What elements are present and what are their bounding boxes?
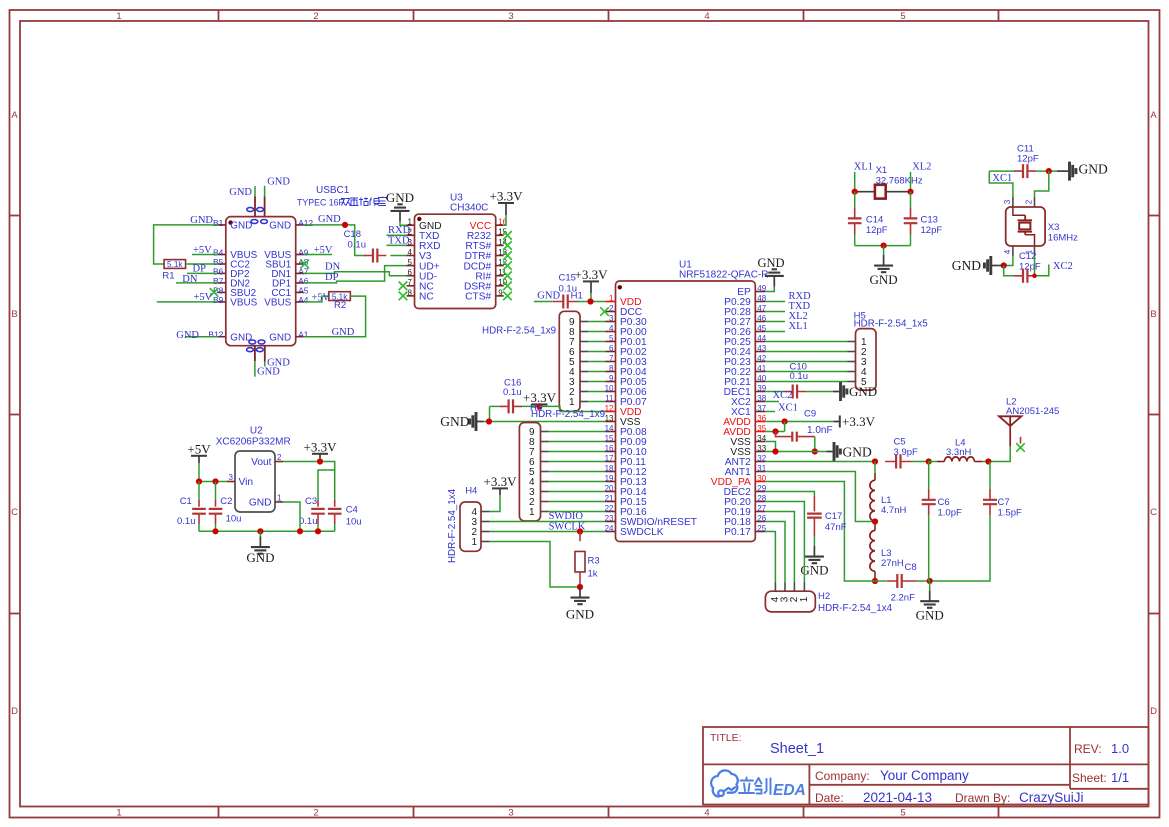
svg-text:4.7nH: 4.7nH: [881, 505, 906, 516]
svg-text:1.0nF: 1.0nF: [807, 425, 833, 436]
svg-text:+5V: +5V: [312, 293, 331, 304]
svg-text:C4: C4: [346, 505, 358, 516]
svg-text:20: 20: [605, 484, 614, 493]
svg-text:4: 4: [1003, 249, 1012, 254]
svg-text:A6: A6: [298, 276, 309, 286]
svg-text:3: 3: [508, 808, 513, 819]
svg-text:3: 3: [229, 473, 234, 482]
svg-text:4: 4: [704, 808, 709, 819]
svg-text:TYPEC 16P: TYPEC 16P: [297, 198, 345, 208]
svg-text:9: 9: [609, 374, 614, 383]
svg-text:A9: A9: [298, 247, 309, 257]
svg-text:A: A: [11, 110, 18, 121]
svg-text:1: 1: [116, 11, 121, 22]
svg-text:+3.3V: +3.3V: [304, 439, 338, 454]
svg-text:11: 11: [498, 268, 507, 277]
svg-text:8: 8: [609, 364, 614, 373]
svg-text:12pF: 12pF: [1017, 154, 1039, 165]
svg-text:A12: A12: [298, 218, 313, 228]
svg-text:5: 5: [900, 808, 905, 819]
svg-text:C2: C2: [220, 496, 232, 507]
svg-text:11: 11: [605, 394, 614, 403]
svg-text:18: 18: [605, 464, 614, 473]
svg-text:2: 2: [1025, 199, 1034, 204]
svg-text:15: 15: [498, 228, 507, 237]
svg-text:A: A: [1150, 110, 1157, 121]
svg-text:12pF: 12pF: [866, 225, 888, 236]
svg-text:0.1u: 0.1u: [177, 516, 196, 527]
svg-text:0.1u: 0.1u: [299, 516, 318, 527]
svg-text:A5: A5: [298, 285, 309, 295]
svg-text:C13: C13: [921, 215, 938, 226]
svg-text:GND: GND: [843, 445, 872, 460]
svg-text:H2: H2: [818, 591, 830, 602]
svg-text:2: 2: [277, 453, 282, 462]
svg-text:TXD: TXD: [388, 235, 410, 246]
svg-text:GND: GND: [440, 414, 469, 429]
svg-text:3.9pF: 3.9pF: [894, 447, 918, 458]
svg-text:16: 16: [605, 444, 614, 453]
svg-text:Drawn By:: Drawn By:: [955, 791, 1010, 805]
svg-text:X1: X1: [876, 165, 888, 176]
svg-text:DP: DP: [325, 272, 339, 283]
svg-text:B1: B1: [213, 218, 224, 228]
svg-text:1: 1: [116, 808, 121, 819]
svg-text:+5V: +5V: [193, 245, 212, 256]
svg-text:Your Company: Your Company: [880, 768, 969, 783]
svg-text:A4: A4: [298, 295, 309, 305]
svg-text:C1: C1: [180, 496, 192, 507]
svg-text:GND: GND: [249, 498, 272, 509]
svg-text:23: 23: [605, 514, 614, 523]
svg-text:1: 1: [277, 494, 282, 503]
svg-text:XL1: XL1: [854, 162, 873, 173]
svg-text:GND: GND: [537, 291, 560, 302]
svg-text:Vin: Vin: [239, 477, 254, 488]
svg-text:CH340C: CH340C: [450, 203, 488, 214]
svg-text:GND: GND: [269, 221, 291, 232]
svg-text:VBUS: VBUS: [264, 298, 291, 309]
svg-text:A7: A7: [298, 266, 309, 276]
svg-text:GND: GND: [229, 187, 252, 198]
svg-text:2: 2: [313, 11, 318, 22]
svg-text:HDR-F-2.54_1x9: HDR-F-2.54_1x9: [531, 409, 605, 420]
svg-text:B6: B6: [213, 266, 224, 276]
svg-text:GND: GND: [176, 330, 199, 341]
svg-text:GND: GND: [386, 190, 414, 205]
svg-text:15: 15: [605, 434, 614, 443]
svg-text:9: 9: [498, 288, 503, 297]
svg-text:Company:: Company:: [815, 769, 870, 783]
svg-text:GND: GND: [566, 607, 594, 622]
svg-text:GND: GND: [267, 176, 290, 187]
svg-text:GND: GND: [269, 332, 291, 343]
svg-text:1: 1: [609, 294, 614, 303]
svg-text:GND: GND: [870, 272, 898, 287]
svg-text:14: 14: [605, 424, 614, 433]
svg-text:REV:: REV:: [1074, 742, 1102, 756]
svg-text:Vout: Vout: [251, 457, 272, 468]
svg-text:16MHz: 16MHz: [1048, 233, 1078, 244]
svg-text:2: 2: [609, 304, 614, 313]
svg-text:1.5pF: 1.5pF: [998, 508, 1022, 519]
svg-text:0.1u: 0.1u: [348, 239, 367, 250]
svg-text:2021-04-13: 2021-04-13: [863, 790, 932, 805]
svg-text:B: B: [11, 309, 17, 320]
svg-text:GND: GND: [849, 384, 877, 399]
svg-text:3: 3: [508, 11, 513, 22]
svg-text:XC1: XC1: [992, 173, 1012, 184]
svg-text:0.1u: 0.1u: [790, 371, 809, 382]
svg-text:21: 21: [605, 494, 614, 503]
svg-text:U2: U2: [250, 426, 263, 437]
svg-text:XC6206P332MR: XC6206P332MR: [216, 437, 291, 448]
svg-text:1.0pF: 1.0pF: [938, 508, 962, 519]
svg-text:5: 5: [408, 258, 413, 267]
svg-text:4: 4: [609, 324, 614, 333]
svg-text:C: C: [11, 507, 18, 518]
svg-text:DN: DN: [325, 262, 341, 273]
svg-text:GND: GND: [190, 215, 213, 226]
svg-text:6: 6: [609, 344, 614, 353]
svg-text:XL2: XL2: [912, 162, 931, 173]
svg-text:C6: C6: [938, 497, 950, 508]
svg-text:GND: GND: [318, 214, 341, 225]
svg-text:CTS#: CTS#: [465, 292, 491, 303]
svg-text:1: 1: [799, 596, 810, 602]
svg-text:+5V: +5V: [194, 292, 213, 303]
svg-text:EDA: EDA: [773, 782, 806, 799]
svg-text:HDR-F-2.54_1x9: HDR-F-2.54_1x9: [482, 326, 556, 337]
svg-text:+3.3V: +3.3V: [842, 414, 876, 429]
svg-text:XC1: XC1: [778, 403, 798, 414]
svg-text:DN: DN: [182, 274, 198, 285]
svg-text:10: 10: [605, 384, 614, 393]
svg-text:B12: B12: [208, 330, 223, 340]
svg-text:R2: R2: [334, 300, 346, 311]
svg-text:+5V: +5V: [314, 245, 333, 256]
svg-text:0.1u: 0.1u: [503, 387, 522, 398]
svg-text:24: 24: [605, 524, 614, 533]
svg-text:D: D: [1150, 706, 1157, 717]
svg-text:3: 3: [609, 314, 614, 323]
svg-text:1.0: 1.0: [1111, 741, 1129, 756]
svg-text:3.3nH: 3.3nH: [946, 447, 971, 458]
svg-text:13: 13: [605, 414, 614, 423]
svg-text:TITLE:: TITLE:: [710, 732, 742, 744]
svg-text:6: 6: [408, 268, 413, 277]
svg-text:27nH: 27nH: [881, 558, 904, 569]
svg-text:GND: GND: [916, 608, 944, 623]
svg-text:XL1: XL1: [789, 321, 808, 332]
svg-text:B4: B4: [213, 247, 224, 257]
svg-text:GND: GND: [1079, 162, 1108, 177]
svg-text:GND: GND: [952, 258, 981, 273]
svg-text:AN2051-245: AN2051-245: [1006, 406, 1059, 417]
svg-text:+3.3V: +3.3V: [490, 189, 524, 204]
svg-text:C8: C8: [905, 562, 917, 573]
svg-text:C9: C9: [804, 408, 816, 419]
svg-text:1: 1: [471, 537, 477, 548]
svg-text:D: D: [11, 706, 18, 717]
svg-text:GND: GND: [332, 327, 355, 338]
svg-text:NC: NC: [419, 292, 434, 303]
svg-text:+5V: +5V: [187, 441, 211, 456]
svg-text:1/1: 1/1: [1111, 770, 1129, 785]
svg-text:3: 3: [1003, 199, 1012, 204]
svg-text:12pF: 12pF: [921, 225, 943, 236]
svg-text:+3.3V: +3.3V: [575, 267, 609, 282]
svg-text:Date:: Date:: [815, 791, 844, 805]
svg-text:C15: C15: [559, 273, 576, 284]
svg-text:A1: A1: [298, 330, 309, 340]
svg-text:C7: C7: [998, 497, 1010, 508]
svg-text:GND: GND: [246, 550, 274, 565]
svg-text:C17: C17: [825, 511, 842, 522]
svg-text:P0.17: P0.17: [724, 527, 751, 538]
svg-text:2: 2: [313, 808, 318, 819]
svg-text:5: 5: [900, 11, 905, 22]
svg-text:1: 1: [569, 397, 575, 408]
svg-text:HDR-F-2.54_1x4: HDR-F-2.54_1x4: [447, 488, 458, 563]
svg-text:1k: 1k: [588, 569, 598, 580]
svg-text:C14: C14: [866, 215, 883, 226]
svg-text:R3: R3: [588, 556, 600, 567]
svg-text:HDR-F-2.54_1x4: HDR-F-2.54_1x4: [818, 603, 893, 614]
svg-text:GND: GND: [757, 256, 784, 270]
svg-text:R1: R1: [162, 271, 174, 282]
svg-text:19: 19: [605, 474, 614, 483]
svg-text:B: B: [1150, 309, 1156, 320]
svg-text:SWDCLK: SWDCLK: [620, 527, 664, 538]
svg-text:X3: X3: [1048, 222, 1060, 233]
svg-text:GND: GND: [230, 221, 252, 232]
svg-text:XC2: XC2: [1053, 261, 1073, 272]
svg-text:2.2nF: 2.2nF: [891, 592, 915, 603]
svg-text:7: 7: [609, 354, 614, 363]
svg-text:NRF51822-QFAC-R: NRF51822-QFAC-R: [679, 270, 768, 281]
svg-text:CrazySuiJi: CrazySuiJi: [1019, 790, 1084, 805]
svg-text:22: 22: [605, 504, 614, 513]
svg-text:12: 12: [605, 404, 614, 413]
svg-text:HDR-F-2.54_1x5: HDR-F-2.54_1x5: [854, 319, 929, 330]
svg-text:Sheet:: Sheet:: [1072, 771, 1107, 785]
svg-text:H4: H4: [465, 486, 477, 497]
svg-text:C3: C3: [305, 496, 317, 507]
svg-text:1: 1: [529, 507, 535, 518]
svg-text:Sheet_1: Sheet_1: [770, 741, 824, 757]
svg-text:47nF: 47nF: [825, 522, 847, 533]
svg-text:5.1k: 5.1k: [167, 260, 183, 269]
svg-text:VBUS: VBUS: [230, 298, 257, 309]
svg-text:B7: B7: [213, 276, 224, 286]
svg-text:17: 17: [605, 454, 614, 463]
svg-text:10u: 10u: [226, 514, 242, 525]
svg-text:8: 8: [408, 288, 413, 297]
svg-text:XC2: XC2: [773, 390, 793, 401]
svg-text:C: C: [1150, 507, 1157, 518]
svg-text:4: 4: [704, 11, 709, 22]
svg-text:5: 5: [609, 334, 614, 343]
svg-text:USBC1: USBC1: [316, 185, 350, 196]
svg-text:4: 4: [408, 248, 413, 257]
svg-text:7: 7: [408, 278, 413, 287]
svg-text:+3.3V: +3.3V: [484, 474, 518, 489]
svg-text:10u: 10u: [346, 517, 362, 528]
svg-text:GND: GND: [257, 367, 280, 378]
svg-text:H1: H1: [571, 291, 583, 302]
